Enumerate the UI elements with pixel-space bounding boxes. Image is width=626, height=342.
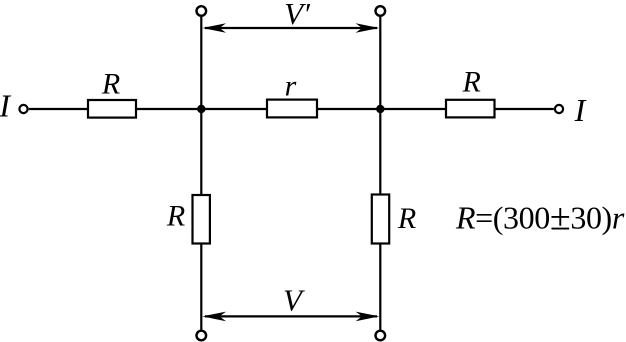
wire (node A to resistor r) — [201, 108, 267, 110]
terminal (top-right open circle) — [376, 6, 386, 16]
wire (top-right terminal down to node B) — [379, 17, 381, 109]
svg-text:r: r — [285, 70, 297, 103]
wire (resistor r to node B) — [317, 108, 380, 110]
resistor R1 — [88, 100, 136, 118]
wire (top-left terminal down to node A) — [200, 17, 202, 109]
svg-text:R: R — [462, 66, 481, 99]
terminal (left open circle) — [19, 105, 27, 113]
resistor r — [267, 100, 317, 118]
svg-text:R: R — [397, 202, 416, 235]
terminal (bottom-right open circle) — [376, 331, 386, 341]
wire (R3 down to bottom-left terminal) — [200, 244, 202, 330]
svg-text:R: R — [166, 200, 185, 233]
svg-text:V′: V′ — [284, 0, 311, 31]
terminal (bottom-left open circle) — [197, 331, 207, 341]
wire (left terminal to R1) — [29, 108, 88, 110]
terminal (right open circle) — [555, 105, 563, 113]
resistor R2 — [446, 100, 495, 118]
node A (junction dot) — [197, 105, 205, 113]
svg-text:R: R — [101, 68, 120, 101]
wire (R1 to node A) — [136, 108, 201, 110]
node B (junction dot) — [376, 105, 384, 113]
wire (node B down to R4) — [379, 109, 381, 195]
wire (R2 to right terminal) — [495, 108, 554, 110]
wire (node B to R2) — [380, 108, 446, 110]
dimension arrow V (bottom, double-headed) — [202, 312, 379, 322]
terminal (top-left open circle) — [197, 6, 207, 16]
wire (node A down to R3) — [200, 109, 202, 195]
resistor R4 (right vertical) — [372, 195, 389, 244]
svg-text:I: I — [0, 88, 11, 124]
svg-text:I: I — [574, 92, 587, 128]
resistor R3 (left vertical) — [193, 195, 210, 244]
svg-text:R=(300±30)r: R=(300±30)r — [455, 197, 625, 239]
svg-text:V: V — [283, 283, 305, 318]
dimension arrow V' (top, double-headed) — [202, 23, 379, 33]
wire (R4 down to bottom-right terminal) — [379, 244, 381, 330]
